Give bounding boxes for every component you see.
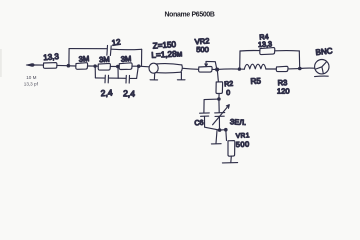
resistor R2 body (vertical) [216, 82, 223, 94]
node E (junction dot) [215, 68, 219, 72]
top capacitor 12 right wire [112, 48, 142, 51]
wire node E to node F [217, 68, 239, 70]
svg-text:13,3: 13,3 [43, 52, 60, 62]
wire delay line to VR2 [183, 68, 199, 69]
wire VR1 to main ground [230, 156, 233, 162]
svg-text:10 M: 10 M [26, 75, 36, 80]
svg-text:BNC: BNC [315, 46, 333, 57]
resistor R3 body [276, 66, 288, 71]
node I (junction dot) [218, 128, 222, 132]
wire R2 to node H [218, 94, 220, 99]
resistor R4 body [260, 48, 275, 55]
delay line shield left leg [153, 73, 155, 79]
delay line shield left ground bar [150, 79, 158, 81]
wire node F to inductor R5 [239, 68, 244, 70]
svg-text:120: 120 [277, 87, 290, 96]
wire node C to R 3M (3) [118, 65, 119, 67]
wire node I to node J [220, 129, 226, 131]
svg-text:13,3: 13,3 [258, 39, 272, 49]
node J (junction dot) [224, 128, 228, 132]
resistor 3M (3) [119, 63, 132, 70]
svg-text:R5: R5 [250, 76, 261, 86]
BNC connector circle [315, 59, 329, 73]
node B (junction dot) [93, 64, 96, 67]
trimmer capacitor plates [215, 113, 225, 117]
wire node G to BNC [300, 67, 314, 69]
trimmer capacitor arrow [213, 105, 230, 125]
top capacitor 12 right leg wire [141, 49, 143, 66]
svg-text:C6: C6 [194, 118, 204, 128]
wire node A to R 3M (1) [68, 65, 75, 67]
wire node B to R 3M (2) [95, 65, 98, 67]
svg-text:13,3 pf: 13,3 pf [24, 81, 39, 86]
wire C6 down and right to node I [205, 117, 220, 131]
BNC inner contact lines [316, 62, 326, 73]
VR2 wiper arrowhead [205, 64, 208, 67]
svg-text:2,4: 2,4 [100, 87, 113, 98]
svg-text:3М: 3М [99, 55, 110, 65]
wire node E down to R2 [217, 70, 218, 82]
delay line coax cable Z=150 L=1,28m [149, 63, 182, 73]
wire cap 2,4 (1) to node C leg [109, 77, 118, 79]
wire cap 2,4 (2) to node D leg [130, 77, 137, 79]
node C (junction dot) [116, 65, 119, 68]
wire R3M3 to node D [132, 65, 138, 67]
svg-text:3М: 3М [120, 54, 131, 64]
wire node C leg to cap 2,4 (2) [118, 77, 126, 79]
resistor 3M (2) [98, 63, 110, 70]
main ground bar [222, 162, 237, 164]
lower cap branch leg from node B [94, 66, 96, 78]
svg-text:R2: R2 [224, 81, 234, 89]
delay line shield right leg [180, 72, 182, 79]
wire trimmer to node I [218, 117, 220, 130]
background paper [0, 0, 360, 181]
VR2 wiper arm wire with arrow [206, 61, 217, 69]
svg-text:12: 12 [111, 37, 122, 47]
wire R5 to R3 [266, 68, 276, 70]
wire VR2 to node E [212, 68, 217, 70]
resistor 3M (1) [76, 63, 88, 70]
capacitor 12 plates [107, 45, 111, 55]
node G (junction dot) [298, 67, 302, 71]
svg-text:3М: 3М [78, 54, 89, 64]
svg-text:Noname P6500B: Noname P6500B [165, 11, 215, 18]
resistor VR1 body (vertical) [228, 141, 235, 157]
R4 branch right leg wire [298, 51, 300, 69]
wire node I to small ground [216, 131, 217, 144]
svg-text:0: 0 [226, 90, 230, 97]
delay line shield right ground bar [177, 79, 185, 81]
svg-text:2,4: 2,4 [123, 88, 136, 98]
wire leg to R4 [240, 50, 260, 52]
wire R13,3 to node A [57, 64, 68, 66]
svg-text:ЗЕЛ.: ЗЕЛ. [230, 117, 247, 127]
R4 branch left leg wire [239, 51, 241, 69]
wire R3M1 to node B [88, 65, 95, 67]
wire node D to delay line [139, 65, 149, 68]
capacitor 2,4 (2) plates [126, 75, 130, 83]
svg-text:500: 500 [236, 140, 250, 149]
wire R4 to right leg [275, 50, 300, 52]
potentiometer VR2 body [199, 66, 213, 72]
BNC ground bar under connector [315, 75, 329, 77]
wire node H down to trimmer cap [218, 99, 220, 112]
svg-text:500: 500 [196, 45, 209, 54]
wire node H left to C6 [204, 99, 219, 112]
wire input to R 13,3 [34, 64, 44, 66]
probe tip arrow (input) [26, 63, 34, 66]
small ground bar [211, 143, 221, 145]
resistor 13,3 (input) [43, 63, 57, 69]
wire node B leg to cap 2,4 (1) [95, 77, 104, 79]
node F (junction dot) [238, 67, 241, 70]
node D (junction dot) [137, 64, 141, 68]
top capacitor 12 left leg wire [68, 49, 70, 66]
lower cap branch leg from node D [137, 67, 139, 79]
svg-text:L=1,28м: L=1,28м [151, 49, 183, 60]
inductor R5 coil [244, 64, 266, 69]
scan edge shading [0, 49, 2, 77]
wire R3 to node G [288, 68, 300, 70]
node A (junction dot) [67, 64, 71, 68]
lower cap branch leg from node C [117, 67, 119, 79]
top capacitor 12 left wire [69, 48, 107, 50]
node H (junction dot) [217, 97, 221, 101]
wire R3M2 to node C [110, 65, 117, 67]
wire node J down to VR1 [225, 130, 228, 141]
capacitor 2,4 (1) plates [105, 75, 109, 83]
capacitor C6 plates [200, 113, 210, 116]
